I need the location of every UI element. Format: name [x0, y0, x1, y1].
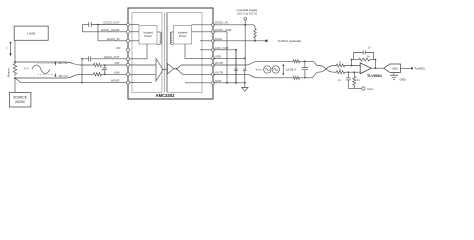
svg-text:GND: GND — [399, 78, 405, 82]
wire lens OUTN with filter resistor — [213, 64, 360, 79]
pin circles left — [127, 23, 130, 26]
transformer windings — [157, 32, 174, 44]
resistor DIAG pullup — [254, 29, 257, 41]
AC source 2 — [272, 66, 279, 73]
capacitor VDD bypass — [243, 69, 247, 83]
svg-text:HLDO_IN: HLDO_IN — [107, 37, 120, 41]
feedback rail with resistor RF — [352, 58, 376, 65]
svg-text:TLV9061: TLV9061 — [367, 74, 382, 78]
resistor input INN — [94, 73, 102, 76]
node bottom of shunt — [14, 77, 16, 79]
modulator — [156, 59, 163, 82]
op-amp U1 TLV9061 — [360, 63, 371, 74]
capacitor HLDO_OUT bypass — [81, 56, 128, 61]
node filter cap bottom — [304, 77, 306, 79]
branch to DIAG pullup — [245, 25, 255, 29]
svg-text:ADC: ADC — [392, 66, 398, 70]
wire DIAG to MCU — [213, 40, 266, 42]
node inverting input — [351, 65, 353, 67]
internal wire HGND — [128, 82, 152, 84]
wire lens bottom from shunt to INN — [15, 74, 94, 78]
wire INP resistor to pin — [102, 64, 129, 66]
node top of shunt — [14, 61, 16, 63]
updown arrow — [282, 65, 284, 74]
node cap top — [104, 64, 106, 66]
output feedback column — [375, 60, 377, 69]
wire LDO_OUT down — [213, 50, 236, 84]
wire shunt to source — [14, 78, 16, 93]
arrow down — [54, 73, 56, 76]
wire modulator to amp across barrier — [163, 68, 167, 70]
dashed peak lines — [38, 63, 55, 65]
svg-text:AMC3302: AMC3302 — [156, 93, 176, 98]
wire HLDO_OUT cap ground to HGND — [81, 59, 83, 83]
wire VDD junction — [213, 57, 245, 59]
Isolated Power block high side — [139, 26, 157, 45]
ADC ground — [393, 73, 395, 76]
wire GND rail — [213, 82, 245, 84]
internal wire GND — [185, 82, 213, 84]
ADC tag — [384, 64, 401, 73]
svg-text:HGND: HGND — [111, 79, 120, 83]
svg-text:INP: INP — [115, 61, 120, 65]
svg-text:OUTN: OUTN — [215, 70, 223, 74]
svg-text:LOAD: LOAD — [27, 31, 36, 35]
ground symbol — [244, 83, 246, 88]
svg-text:NC: NC — [116, 46, 120, 50]
op-amp output wire — [371, 67, 383, 69]
SOURCE 24VDC box — [9, 93, 31, 108]
sine wave — [32, 65, 50, 74]
svg-text:(3.0 V to 5.5 V): (3.0 V to 5.5 V) — [237, 12, 256, 16]
wire lens OUTP with filter resistor — [213, 60, 360, 74]
svg-text:Isolated: Isolated — [143, 31, 153, 35]
svg-text:0 V: 0 V — [24, 67, 29, 71]
svg-text:I: I — [7, 46, 8, 50]
resistor RSHUNT — [7, 62, 17, 77]
LOAD box — [14, 26, 48, 40]
isolation barrier — [163, 13, 165, 93]
capacitor output filter — [302, 61, 309, 78]
wire DCDC_GND down — [213, 32, 227, 83]
svg-text:±2.05 V: ±2.05 V — [286, 67, 296, 71]
svg-text:OUTP: OUTP — [215, 61, 223, 65]
inner low-side box — [168, 13, 203, 93]
svg-text:DCDC_IN: DCDC_IN — [215, 21, 228, 25]
svg-text:DCDC_GND: DCDC_GND — [215, 28, 231, 32]
capacitor LDO_OUT bypass — [234, 50, 238, 83]
supply terminal — [244, 17, 247, 20]
resistor input INP — [94, 63, 102, 66]
resistor RG — [353, 72, 356, 88]
wire to VREF terminal — [348, 88, 361, 90]
capacitor CG — [346, 72, 351, 88]
supply vertical wire — [244, 20, 246, 69]
node Cg — [348, 71, 350, 73]
pin circles right — [212, 23, 215, 26]
wire INN resistor to pin — [102, 73, 129, 75]
capacitor DCDC_OUT bypass — [83, 22, 129, 27]
wires amp to OUTP OUTN pins — [174, 65, 213, 69]
svg-text:HLDO_OUT: HLDO_OUT — [104, 55, 120, 59]
svg-text:DCDC_OUT: DCDC_OUT — [103, 21, 119, 25]
svg-text:GND: GND — [215, 79, 221, 83]
svg-text:To MCU (optional): To MCU (optional) — [278, 39, 301, 43]
node Rg — [354, 71, 356, 73]
wire DCDC_OUT node down to HLDO_IN pin — [98, 25, 128, 41]
svg-text:Power: Power — [179, 34, 187, 38]
svg-text:Isolated: Isolated — [178, 31, 188, 35]
svg-text:DCDC_HGND: DCDC_HGND — [101, 28, 119, 32]
inner high-side box — [132, 13, 162, 93]
AC source 1 — [264, 66, 271, 73]
wire lens top from shunt to INP — [15, 62, 94, 65]
HGND rail to shunt low node — [15, 78, 128, 82]
svg-text:DIAG: DIAG — [215, 37, 223, 41]
node filter cap top — [304, 61, 306, 63]
svg-text:−50 mV: −50 mV — [57, 74, 67, 78]
svg-text:24VDC: 24VDC — [15, 100, 26, 104]
arrow up — [54, 63, 56, 66]
svg-text:+50 mV: +50 mV — [57, 61, 67, 65]
node cap bottom — [104, 74, 106, 76]
svg-text:VDD: VDD — [215, 55, 221, 59]
IC AMC3302 outer box — [128, 8, 213, 99]
Isolated Power block low side — [174, 26, 192, 45]
svg-text:SOURCE: SOURCE — [13, 96, 27, 100]
svg-text:CIN: CIN — [101, 69, 104, 71]
current arrow I — [7, 42, 12, 57]
svg-text:INN: INN — [115, 70, 120, 74]
svg-text:Power: Power — [144, 34, 152, 38]
capacitor CIN differential — [101, 65, 107, 74]
wire to MCU — [401, 67, 411, 69]
internal wires low-side power pins — [192, 24, 214, 26]
wire DCDC_IN to supply — [213, 24, 245, 26]
internal wires high-side power pins — [128, 24, 139, 26]
wire LOAD to shunt — [14, 40, 16, 62]
wire cap to DCDC_HGND pin — [83, 25, 129, 32]
svg-text:To MCU: To MCU — [414, 67, 425, 71]
capacitor CF — [354, 51, 374, 60]
op-amp internal output buffer — [167, 64, 174, 75]
internal wires INP INN to modulator — [128, 64, 156, 66]
